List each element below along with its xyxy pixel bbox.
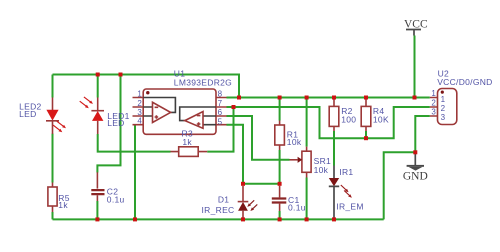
svg-text:4: 4 <box>137 117 142 126</box>
svg-text:0.1u: 0.1u <box>107 195 125 205</box>
D1 incoming arrows <box>247 200 257 211</box>
svg-text:5: 5 <box>218 117 223 126</box>
svg-text:10k: 10k <box>287 137 302 147</box>
svg-text:IR_REC: IR_REC <box>202 205 235 215</box>
LED D1 (LED1) body <box>91 98 104 135</box>
LED D2 body <box>46 98 59 135</box>
svg-text:GND: GND <box>403 170 428 182</box>
wire U1 pin7 output net to U2 pin2 <box>227 107 430 138</box>
U1 internal wiring comparator A <box>143 98 175 117</box>
wire LED2 top <box>52 75 54 98</box>
wire SR1 top <box>306 98 308 147</box>
svg-text:2: 2 <box>441 104 446 113</box>
svg-text:6: 6 <box>218 108 223 117</box>
svg-text:2: 2 <box>431 99 436 108</box>
svg-text:IR_EM: IR_EM <box>336 202 363 212</box>
svg-text:2: 2 <box>137 99 142 108</box>
svg-text:1: 1 <box>441 95 446 104</box>
svg-text:3: 3 <box>431 108 436 117</box>
wire VCC rail pin8 row <box>227 97 430 99</box>
op-amp U1 LM393EDR2G <box>133 89 227 134</box>
wire LED2 to R5 <box>52 134 54 183</box>
wire SR1 bottom <box>306 178 308 220</box>
wire ground rail riser to GND node <box>384 152 416 219</box>
IR LED IR1 IR_EM <box>329 166 339 220</box>
wire R4 bottom <box>365 131 367 138</box>
wire U1 pin5 to D1 node <box>227 125 244 184</box>
svg-text:8: 8 <box>218 89 223 98</box>
svg-text:1: 1 <box>431 89 436 98</box>
wire U2 pin3 to GND node <box>415 116 430 152</box>
svg-text:VCC: VCC <box>404 18 428 30</box>
potentiometer SR1 <box>290 147 312 178</box>
svg-text:VCC/D0/GND: VCC/D0/GND <box>437 77 492 87</box>
resistor R3 <box>171 147 208 157</box>
photodiode D1 IR_REC <box>238 186 249 220</box>
VCC power port <box>406 30 421 36</box>
svg-text:IR1: IR1 <box>339 167 353 177</box>
IR1 emission arrows <box>341 185 352 198</box>
wire R1 bottom to node <box>279 150 281 184</box>
wire node D1-C1 <box>243 183 280 185</box>
wire C1 bottom <box>279 211 281 219</box>
resistor R2 <box>329 98 339 132</box>
svg-text:D1: D1 <box>218 194 229 204</box>
wire R3 right to pin7 net <box>207 107 233 152</box>
U1 left pin stems 1-4 <box>133 98 144 125</box>
wire C2 feed from VCC rail <box>97 75 120 173</box>
wire R5 to ground rail <box>52 212 54 219</box>
U1 comparator A triangle <box>153 102 171 122</box>
wire R1 top <box>279 98 281 121</box>
connector U2 VCC/D0/GND <box>430 89 457 125</box>
svg-text:10K: 10K <box>373 115 389 125</box>
wire C2 bottom <box>96 201 98 219</box>
resistor R5 <box>48 183 57 213</box>
svg-text:7: 7 <box>218 99 223 108</box>
wire R2 to IR1 <box>333 131 335 166</box>
svg-text:1k: 1k <box>58 200 68 210</box>
wire U1 pin6 to SR1 wiper <box>227 116 290 160</box>
wire U1 pin4 to ground rail <box>134 125 136 220</box>
wire LED1 top <box>97 75 99 98</box>
svg-text:LED: LED <box>19 109 36 119</box>
svg-text:3: 3 <box>441 113 446 122</box>
resistor R4 <box>361 98 371 132</box>
wire ground rail <box>53 218 384 220</box>
wire LED1 to R3 <box>98 134 171 152</box>
svg-text:100: 100 <box>341 115 356 125</box>
U1 right pin stems 8-5 <box>216 98 227 125</box>
U1 internal wiring comparator B <box>180 107 216 125</box>
LED1 incoming arrows <box>80 97 93 108</box>
svg-text:0.1u: 0.1u <box>288 202 306 212</box>
capacitor C2 <box>91 172 104 201</box>
svg-text:10k: 10k <box>314 165 329 175</box>
LED2 emission arrows <box>53 121 66 132</box>
wire VCC top rail <box>53 75 240 98</box>
svg-text:LED: LED <box>107 118 124 128</box>
resistor R1 <box>275 121 285 151</box>
svg-text:LM393EDR2G: LM393EDR2G <box>174 77 232 87</box>
svg-text:1: 1 <box>137 89 142 98</box>
U1 comparator B triangle <box>185 112 203 129</box>
GND power ground <box>407 152 424 170</box>
capacitor C1 <box>272 186 287 211</box>
wire VCC power drop <box>414 36 416 98</box>
svg-text:1k: 1k <box>182 137 192 147</box>
